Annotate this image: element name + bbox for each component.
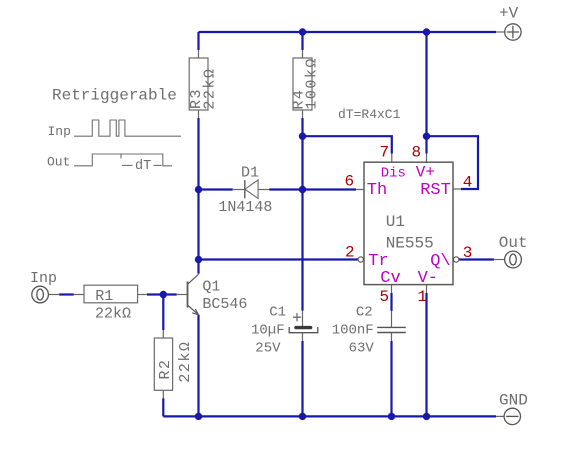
svg-text:V-: V- bbox=[418, 269, 438, 288]
svg-text:C2: C2 bbox=[356, 305, 373, 321]
svg-text:dT: dT bbox=[135, 159, 151, 174]
svg-text:100kΩ: 100kΩ bbox=[304, 57, 321, 110]
svg-text:Out: Out bbox=[47, 155, 70, 170]
svg-text:63V: 63V bbox=[349, 340, 375, 356]
svg-text:6: 6 bbox=[345, 173, 355, 191]
svg-text:22kΩ: 22kΩ bbox=[177, 341, 194, 383]
svg-text:Dis: Dis bbox=[381, 166, 406, 182]
svg-text:Q1: Q1 bbox=[202, 279, 220, 296]
svg-text:3: 3 bbox=[463, 244, 473, 262]
svg-text:100nF: 100nF bbox=[332, 323, 374, 339]
svg-text:U1: U1 bbox=[386, 213, 405, 231]
svg-text:dT=R4xC1: dT=R4xC1 bbox=[338, 107, 401, 122]
svg-text:2: 2 bbox=[345, 244, 355, 262]
svg-text:Retriggerable: Retriggerable bbox=[52, 87, 177, 105]
svg-text:R1: R1 bbox=[95, 288, 113, 305]
svg-text:BC546: BC546 bbox=[202, 296, 247, 313]
svg-text:NE555: NE555 bbox=[386, 235, 434, 253]
svg-text:1: 1 bbox=[418, 288, 428, 306]
svg-text:+V: +V bbox=[499, 5, 519, 23]
svg-text:V+: V+ bbox=[416, 164, 435, 182]
svg-text:22kΩ: 22kΩ bbox=[95, 305, 131, 322]
svg-text:22kΩ: 22kΩ bbox=[202, 68, 219, 110]
svg-text:D1: D1 bbox=[241, 165, 259, 182]
svg-text:RST: RST bbox=[420, 181, 451, 200]
svg-text:4: 4 bbox=[463, 174, 473, 192]
svg-text:10µF: 10µF bbox=[251, 323, 285, 339]
svg-text:Th: Th bbox=[367, 181, 387, 200]
svg-text:R2: R2 bbox=[157, 358, 174, 379]
svg-text:C1: C1 bbox=[269, 305, 286, 321]
svg-text:Inp: Inp bbox=[48, 124, 71, 139]
svg-text:Inp: Inp bbox=[30, 270, 57, 287]
svg-text:5: 5 bbox=[380, 288, 390, 306]
svg-text:8: 8 bbox=[412, 144, 422, 162]
svg-text:Out: Out bbox=[499, 234, 528, 252]
svg-text:1N4148: 1N4148 bbox=[218, 199, 272, 216]
svg-text:25V: 25V bbox=[255, 340, 281, 356]
svg-text:7: 7 bbox=[380, 144, 390, 162]
svg-text:GND: GND bbox=[499, 392, 528, 410]
svg-text:Cv: Cv bbox=[380, 269, 400, 288]
